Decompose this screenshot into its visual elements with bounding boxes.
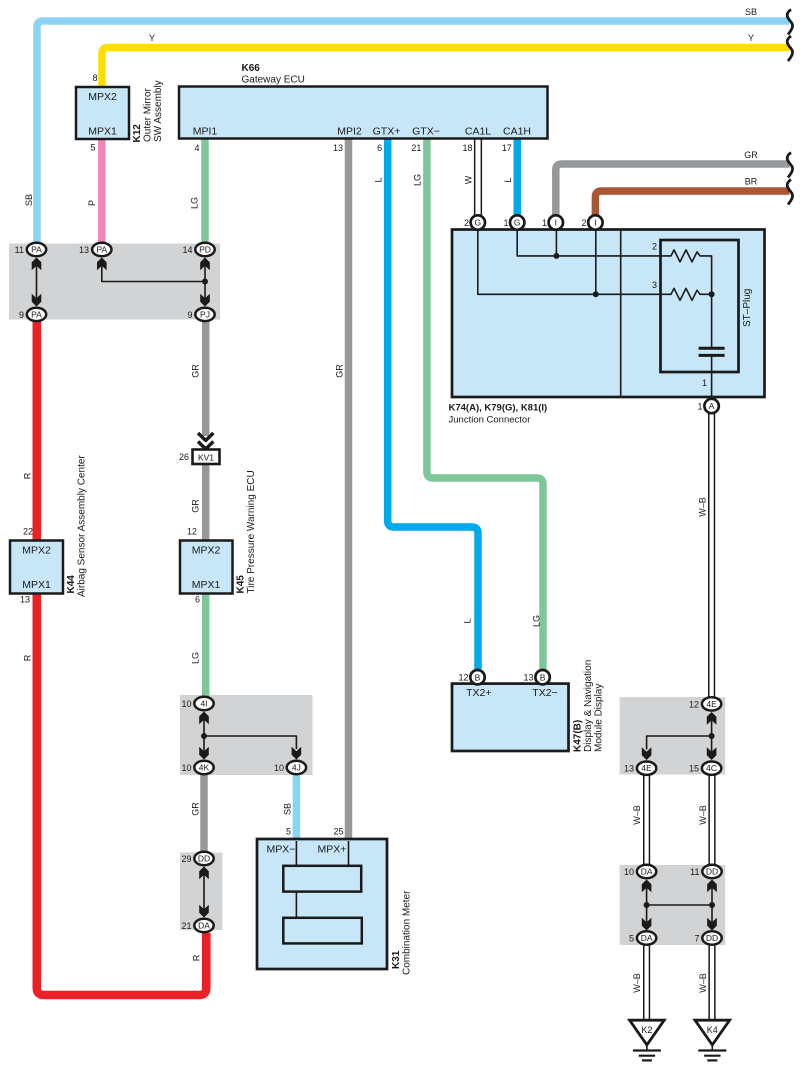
svg-text:PA: PA [31,245,42,255]
svg-text:12: 12 [689,699,699,709]
svg-text:MPI2: MPI2 [337,126,362,138]
svg-text:1: 1 [503,218,508,228]
svg-text:25: 25 [333,827,343,837]
label K44 [66,575,77,594]
arrow up into 13 PA [97,258,107,271]
wire 1I down [555,230,557,256]
connector circle 1 G [510,215,524,229]
label R (upper) [23,472,33,479]
component K45 Tire Pressure Warning ECU box [180,541,233,594]
label Junction Connector [449,415,531,426]
svg-text:2: 2 [581,218,586,228]
label W-B (5 DA-K2) [632,973,642,993]
label Y (right end) [748,33,754,43]
label Gateway ECU [242,75,305,86]
wire break SB right end [787,10,792,35]
connector oval 13 4E [637,762,656,775]
label GR (right end) [744,150,758,160]
component K66 Gateway ECU box [179,87,548,139]
svg-text:PD: PD [199,245,211,255]
pin 10 label (4J) [274,763,284,773]
component K47(B) Display and Navigation Module Display box [452,684,569,751]
K31 internal block 2 [283,918,362,944]
wire break BR right end [787,180,792,205]
svg-text:10: 10 [181,699,191,709]
svg-text:Module Display: Module Display [594,684,605,752]
label SB (4J-K31) [283,803,293,815]
pin 12 label (B) [458,673,468,683]
wire P from K12 pin 5 to connector 13 PA [98,139,106,243]
wire 2I down [595,230,597,294]
wire LG from K66 MPI1 pin 4 to connector 14 PD [201,139,209,243]
arrow down into 15 4C [707,747,717,760]
connector pass-through block (DD/DA floor wire) [180,853,223,931]
pin 9 label (PJ) [187,310,192,320]
pin 6 label K45 [195,595,200,605]
svg-text:L: L [463,618,473,623]
arrow down into 13 4E [642,747,652,760]
svg-text:18: 18 [462,143,472,153]
label P [87,200,97,206]
ground K4 earth symbol [698,1045,726,1061]
wire 11DD down [711,884,713,926]
svg-text:GR: GR [191,802,201,816]
svg-text:ST–Plug: ST–Plug [742,289,753,327]
svg-text:K4: K4 [707,1025,718,1035]
label GR (MPI2 wire) [335,364,345,378]
wire W-B from 15 4C to 11 DD [708,776,715,865]
pin 22 label K44 [23,527,33,537]
svg-text:15: 15 [689,764,699,774]
arrow down into 10 4J [292,747,302,760]
connector oval 11 PA [27,243,46,256]
ST-Plug box [661,240,739,372]
label LG (MPI1 wire) [190,197,200,209]
svg-text:GR: GR [191,499,201,513]
label GR (4K-DD) [191,802,201,816]
K31 internal block 1 [283,866,361,892]
svg-text:13: 13 [20,595,30,605]
svg-text:K12: K12 [132,124,143,143]
wire W-B from 7 DD to ground K4 [708,945,715,1021]
svg-text:MPX−: MPX− [267,844,296,856]
pin 10 label (4K) [181,763,191,773]
svg-text:MPX2: MPX2 [88,91,117,103]
svg-text:4C: 4C [706,763,717,773]
wire 13PA branch [102,262,205,282]
svg-text:K44: K44 [66,575,77,594]
node junction 2I/2G [593,291,599,297]
svg-text:10: 10 [274,763,284,773]
K31 internal wire MPX- down [295,841,297,866]
component K31 Combination Meter box [257,839,387,969]
label R (lower) [23,654,33,661]
pin 21 label [181,921,191,931]
wire DA-DD bridge [647,904,712,906]
pin 26 label KV1 [179,452,189,462]
wire W-B from 5 DA to ground K2 [643,945,650,1021]
label W-B (7 DD-K4) [698,973,708,993]
wire W-B from junction connector 1 A to 12 4E [708,413,715,697]
label K12 [132,124,143,143]
svg-text:5: 5 [286,827,291,837]
wire DD-DA [203,871,205,913]
svg-text:PJ: PJ [200,309,210,319]
connector oval 10 4K [194,761,213,774]
svg-text:Y: Y [149,33,155,43]
wire Y horizontal+vertical to K12 pin 8 [102,48,790,88]
label LG (K45-4I) [191,652,201,664]
svg-text:B: B [540,672,546,682]
wire capacitor to ST-plug pin 1 [711,355,713,396]
svg-text:K74(A), K79(G), K81(I): K74(A), K79(G), K81(I) [449,403,548,414]
svg-text:4E: 4E [641,763,652,773]
wire GR from connector 10 4K to 29 DD [200,775,208,853]
svg-text:MPX1: MPX1 [22,579,51,591]
svg-text:MPX1: MPX1 [88,126,117,138]
component K12 Outer Mirror SW Assembly box [76,87,129,139]
label Airbag Sensor Assembly Center [77,455,88,597]
svg-text:13: 13 [624,764,634,774]
svg-text:I: I [594,218,596,228]
wire W from K66 CA1L pin 18 to junction connector 2 G [474,139,482,216]
svg-text:Combination Meter: Combination Meter [402,890,413,975]
svg-text:CA1H: CA1H [503,126,531,138]
node junction DD [709,902,715,908]
svg-text:4J: 4J [292,763,301,773]
connector oval 10 4J [287,761,306,774]
arrow up into 12 4E [707,712,717,725]
label GR (KV1-K45) [191,499,201,513]
svg-text:3: 3 [652,280,657,290]
svg-text:Gateway ECU: Gateway ECU [242,75,305,86]
svg-text:PA: PA [31,309,42,319]
connector oval 13 PA [92,243,111,256]
pin 8 label K12 [92,73,97,83]
label Display and Navigation [583,660,594,752]
connector oval 15 4C [702,762,721,775]
node junction DA [644,902,650,908]
svg-text:11: 11 [15,245,24,255]
pin 1 label (A) [697,402,702,412]
label Module Display [594,684,605,752]
pin 12 label K45 [187,527,197,537]
connector circle 1 I [549,215,563,229]
svg-text:L: L [374,177,384,182]
pin 1 label (G) [503,218,508,228]
wire 2G to resistor-3 row [478,230,668,294]
node junction 1I/1G [553,253,559,259]
svg-text:W–B: W–B [698,805,708,825]
svg-text:Junction Connector: Junction Connector [449,415,531,426]
arrow down into 7 DD [707,918,717,931]
svg-text:W–B: W–B [698,497,708,517]
svg-text:4: 4 [194,143,199,153]
connector circle 12 B [470,670,484,684]
svg-text:LG: LG [190,197,200,209]
connector pass-through block (DA/DD quarter wire) [620,865,726,945]
svg-text:SB: SB [745,7,757,17]
svg-text:R: R [192,954,202,961]
svg-text:Tire Pressure Warning ECU: Tire Pressure Warning ECU [246,470,257,593]
svg-text:Y: Y [748,33,754,43]
svg-text:4K: 4K [199,763,210,773]
svg-text:A: A [709,401,715,411]
label W-B (A-4E) [698,497,708,517]
svg-text:1: 1 [542,218,547,228]
capacitor C (ST-plug) [699,348,725,355]
svg-text:GTX−: GTX− [412,126,440,138]
svg-text:1: 1 [702,378,707,388]
connector oval 11 DD [702,865,721,878]
svg-text:14: 14 [182,245,192,255]
pin 13 label (4E) [624,764,634,774]
wire L from K66 GTX+ pin 6 to K47 pin 12 [388,139,478,669]
svg-text:17: 17 [502,143,512,153]
pin 3 label ST-plug [652,280,657,290]
wire 11PA-9PA [36,262,38,302]
arrow up into 11 DD [707,880,717,893]
arrow down into 5 DA [642,918,652,931]
arrow down into 9 PJ [200,294,210,307]
svg-text:MPX2: MPX2 [22,545,51,557]
label W-B (15 4C-11 DD) [698,805,708,825]
connector circle 1 A [704,399,718,413]
wire 4E down [711,717,713,757]
node junction 4I branch [201,733,207,739]
svg-text:7: 7 [694,934,699,944]
svg-text:SB: SB [24,194,34,206]
svg-text:CA1L: CA1L [465,126,491,138]
arrow up into 11 PA [32,258,42,271]
svg-text:G: G [514,218,521,228]
svg-text:DD: DD [706,933,718,943]
svg-text:12: 12 [187,527,197,537]
label K66 [242,63,261,74]
svg-text:GR: GR [335,364,345,378]
label L (GTX+ wire top) [374,177,384,182]
component K44 Airbag Sensor Assembly Center box [10,541,63,594]
connector oval 29 DD [194,852,213,865]
ground K2 earth symbol [633,1045,661,1061]
pin 11 label (DD) [690,867,699,877]
pin 5 label K12 [90,143,95,153]
connector circle 2 I [588,215,602,229]
svg-text:W–B: W–B [632,805,642,825]
pin 1 label (I) [542,218,547,228]
pin 5 label (K31) [286,827,291,837]
svg-text:W: W [464,175,474,184]
wire LG from K45 pin 6 to connector 10 4I [202,594,210,698]
svg-text:W–B: W–B [698,973,708,993]
arrow up into 10 DA [642,880,652,893]
connector oval 14 PD [195,243,214,256]
svg-text:21: 21 [181,921,191,931]
label ST-Plug [742,289,753,327]
label K45 [236,575,247,594]
arrow down into 10 4K [199,747,209,760]
node junction 14PD branch [202,279,208,285]
pin 2 label (G) [464,218,469,228]
pin 13 label [79,245,89,255]
svg-text:TX2−: TX2− [532,687,557,699]
label K74(A), K79(G), K81(I) [449,403,548,414]
component K74/K79/K81 junction connector box [452,230,765,398]
svg-text:10: 10 [624,867,634,877]
label Combination Meter [402,890,413,975]
svg-text:Airbag Sensor Assembly Center: Airbag Sensor Assembly Center [77,455,88,597]
svg-text:G: G [474,218,481,228]
K31 internal wire MPX+ down [348,841,350,866]
svg-text:MPX2: MPX2 [192,545,221,557]
svg-text:Display & Navigation: Display & Navigation [583,660,594,752]
label L (GTX+ wire bottom) [463,618,473,623]
resistor R3 (ST-plug pin 3) [668,288,712,300]
svg-text:8: 8 [92,73,97,83]
svg-text:K45: K45 [236,575,247,594]
pin 9 label (PA) [19,310,24,320]
connector oval 7 DD [702,931,721,944]
svg-text:R: R [23,654,33,661]
svg-text:K66: K66 [242,63,261,74]
pin 4 label MPI1 [194,143,199,153]
pin 10 label (4I) [181,699,191,709]
pin 13 label K44 [20,595,30,605]
svg-text:MPX1: MPX1 [192,579,221,591]
svg-text:9: 9 [187,310,192,320]
label R (bottom horizontal) [192,954,202,961]
svg-text:K31: K31 [391,950,402,969]
node junction R2/R3 output [709,291,715,297]
pin 10 label (DA) [624,867,634,877]
svg-text:2: 2 [464,218,469,228]
label SB (left vertical) [24,194,34,206]
label W (CA1L wire) [464,175,474,184]
connector circle 2 G [471,215,485,229]
junction connector internal divider [620,230,622,396]
label SB (right end) [745,7,757,17]
connector oval 12 4E [702,697,721,710]
svg-text:KV1: KV1 [198,453,214,463]
pin 17 label CA1H [502,143,512,153]
svg-text:BR: BR [745,177,758,187]
resistor R2 (ST-plug pin 2) [668,250,712,294]
wire 4I branch to 4J [204,736,296,749]
wire L from K66 CA1H pin 17 to junction connector 1 G [514,139,522,216]
label Y (mid) [149,33,155,43]
svg-text:4I: 4I [200,699,207,709]
connector pass-through block (4I/4K/4J floor wire) [180,695,313,775]
svg-text:DA: DA [198,921,210,931]
pin 25 label (K31) [333,827,343,837]
connector circle 13 B [535,670,549,684]
svg-text:4E: 4E [706,699,717,709]
label LG (GTX- wire bottom) [532,615,542,627]
arrow down into 9 PA [32,294,42,307]
connector oval 10 DA [637,865,656,878]
ground K2 triangle [630,1020,665,1045]
svg-text:SB: SB [283,803,293,815]
svg-text:SW Assembly: SW Assembly [153,80,164,142]
label K31 [391,950,402,969]
svg-text:K2: K2 [641,1025,652,1035]
svg-text:26: 26 [179,452,189,462]
pin 14 label [182,245,192,255]
svg-text:5: 5 [629,934,634,944]
svg-text:22: 22 [23,527,33,537]
svg-text:21: 21 [411,143,421,153]
pin 5 label (DA) [629,934,634,944]
label Outer Mirror SW Assembly [143,80,165,142]
wire 10DA down [646,884,648,926]
wire R output to capacitor [711,294,713,347]
pin 21 label GTX- [411,143,421,153]
svg-text:PA: PA [96,245,107,255]
svg-text:1: 1 [697,402,702,412]
pin 1 label ST-plug [702,378,707,388]
wire GR horizontal to junction connector 1 I [556,164,790,216]
svg-text:9: 9 [19,310,24,320]
connector pass-through block (PA/PD/PJ instrument panel wire) [9,244,220,320]
pin 13 label (B) [523,673,533,683]
node junction 4E branch [709,733,715,739]
svg-text:13: 13 [333,143,343,153]
svg-text:DD: DD [706,867,718,877]
svg-text:DA: DA [641,867,653,877]
connector oval 9 PA [27,308,46,321]
label W-B (13 4E-10 DA) [632,805,642,825]
arrow up into 10 4I [199,712,209,725]
wire 4E branch to 13 4E [647,736,712,750]
svg-text:29: 29 [181,854,191,864]
wire 14PD-9PJ [204,262,206,302]
wire LG from K66 GTX- pin 21 to K47 pin 13 [427,139,543,669]
shield ground point KV1 chevrons [198,433,213,449]
svg-text:TX2+: TX2+ [466,687,491,699]
connector pass-through block (4E/4C roof wire) [620,697,726,774]
wire SB horizontal+left vertical (node SB bus) [37,21,790,243]
arrow down into 21 DA [199,905,209,918]
label LG (GTX- wire top) [413,174,423,186]
svg-text:LG: LG [413,174,423,186]
label L (CA1H wire) [503,177,513,182]
ground K4 triangle [695,1020,730,1045]
K31 internal wire between blocks [295,892,297,918]
svg-text:LG: LG [191,652,201,664]
svg-text:K47(B): K47(B) [573,720,584,752]
connector oval 10 4I [194,697,213,710]
wire break GR right end [787,153,792,178]
pin 13 label MPI2 [333,143,343,153]
svg-text:13: 13 [79,245,89,255]
connector oval 9 PJ [195,308,214,321]
pin 2 label ST-plug [652,242,657,252]
svg-text:P: P [87,200,97,206]
svg-text:GR: GR [191,364,201,378]
svg-text:Outer Mirror: Outer Mirror [143,87,154,142]
svg-text:B: B [475,672,481,682]
svg-text:LG: LG [532,615,542,627]
wire 4I down [203,716,205,756]
svg-text:10: 10 [181,763,191,773]
arrow up into 29 DD [199,867,209,880]
wire GR from shield KV1 to K45 pin 12 [202,464,210,541]
pin 18 label CA1L [462,143,472,153]
svg-text:L: L [503,177,513,182]
pin 12 label (4E) [689,699,699,709]
arrow up into 14 PD [200,258,210,271]
wire W-B from 13 4E to 10 DA [643,776,650,865]
